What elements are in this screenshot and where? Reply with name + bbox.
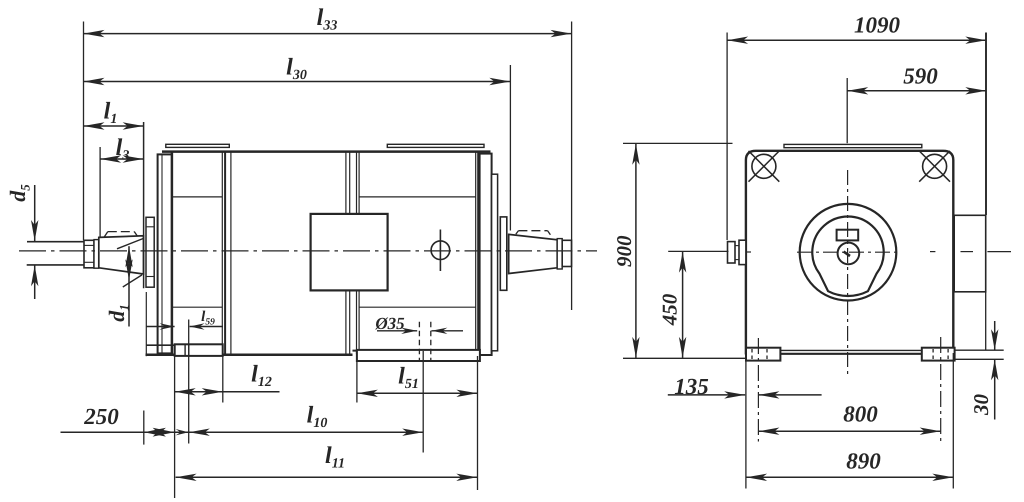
svg-text:250: 250 — [83, 404, 119, 429]
svg-text:900: 900 — [612, 235, 636, 267]
svg-text:800: 800 — [843, 402, 878, 427]
svg-text:590: 590 — [903, 64, 938, 89]
svg-text:450: 450 — [658, 293, 682, 326]
svg-text:Ø35: Ø35 — [374, 314, 405, 333]
svg-text:30: 30 — [969, 394, 993, 417]
svg-text:1090: 1090 — [854, 13, 901, 38]
svg-text:135: 135 — [674, 374, 709, 399]
svg-text:890: 890 — [846, 449, 881, 474]
